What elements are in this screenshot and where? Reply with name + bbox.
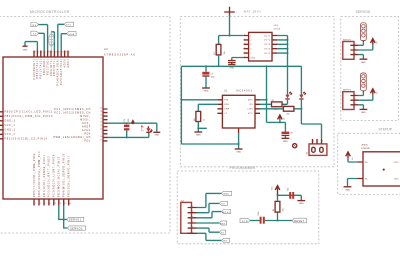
svg-text:23: 23 xyxy=(100,107,102,109)
U2 right pins xyxy=(103,109,108,141)
wire C10 to RESET xyxy=(265,220,292,222)
svg-text:100n: 100n xyxy=(128,118,130,122)
X1 slots xyxy=(312,147,323,152)
X3 inner ticks xyxy=(350,45,354,54)
svg-text:C16: C16 xyxy=(124,119,126,122)
U2 bottom pin numbers xyxy=(35,203,72,205)
svg-text:24: 24 xyxy=(100,111,102,113)
svg-text:SERV2: SERV2 xyxy=(343,90,352,92)
svg-text:2: 2 xyxy=(355,99,356,101)
svg-text:PC3(ADC3)_LIGHT_PIN26: PC3(ADC3)_LIGHT_PIN26 xyxy=(53,154,56,197)
svg-text:1: 1 xyxy=(355,94,356,96)
net label RX xyxy=(31,23,48,51)
net label RESET xyxy=(292,218,307,223)
wire to SERVO2 xyxy=(64,206,68,229)
svg-text:PC6(RESET): PC6(RESET) xyxy=(34,59,36,80)
svg-text:R9: R9 xyxy=(273,209,275,211)
svg-text:VCC: VCC xyxy=(248,113,253,115)
junctions on riser xyxy=(287,39,289,41)
svg-text:1: 1 xyxy=(313,141,314,143)
resistor R5 xyxy=(272,102,283,107)
svg-text:RESET: RESET xyxy=(294,221,304,223)
regulator U1 body xyxy=(222,95,255,128)
svg-text:GND: GND xyxy=(154,135,159,137)
svg-text:ATMEGA328P-AU: ATMEGA328P-AU xyxy=(104,53,136,56)
svg-text:3: 3 xyxy=(355,103,356,105)
svg-text:2: 2 xyxy=(192,211,193,213)
svg-text:SDA: SDA xyxy=(68,33,74,36)
svg-text:3: 3 xyxy=(35,203,36,205)
ground GND (C9) xyxy=(282,138,290,143)
net label RST xyxy=(219,221,226,225)
net label 5V xyxy=(219,201,227,205)
section frame PROGRAMMER xyxy=(177,171,319,244)
U1 right pins xyxy=(255,100,260,114)
svg-text:GND: GND xyxy=(361,112,366,114)
wire X5 pin3 to GND xyxy=(358,105,363,109)
svg-text:R4: R4 xyxy=(194,119,196,121)
U1 bottom pin xyxy=(238,128,240,133)
ground GND (C7) xyxy=(202,88,210,93)
connector X3 body xyxy=(343,42,354,60)
svg-text:2: 2 xyxy=(355,49,356,51)
svg-text:GND: GND xyxy=(299,203,304,205)
svg-text:STEPUP: STEPUP xyxy=(379,127,393,131)
svg-text:2: 2 xyxy=(250,40,251,42)
section frame MICROCONTROLLER xyxy=(0,17,170,234)
svg-text:21: 21 xyxy=(100,129,102,131)
svg-text:PD2(INT0): PD2(INT0) xyxy=(51,59,53,76)
supply arrow VCC xyxy=(271,186,280,197)
svg-text:DRC: DRC xyxy=(248,100,254,102)
svg-text:1: 1 xyxy=(69,52,70,54)
svg-text:10k: 10k xyxy=(224,51,226,54)
svg-text:OUT3: OUT3 xyxy=(264,44,270,46)
net label SDA xyxy=(61,32,76,51)
module origin cross xyxy=(383,169,385,171)
JP1 right pins xyxy=(272,36,277,54)
svg-text:5: 5 xyxy=(45,203,46,205)
U2 right pin numbers xyxy=(100,107,102,141)
svg-text:U2: U2 xyxy=(104,48,108,51)
svg-text:DTR: DTR xyxy=(242,221,248,223)
wire S2 to X5 pin1 xyxy=(358,92,363,95)
svg-text:PC2_(ADC2)SMES_CH: PC2_(ADC2)SMES_CH xyxy=(54,111,91,114)
svg-text:GND: GND xyxy=(196,135,201,137)
svg-text:2: 2 xyxy=(318,141,319,143)
U2 right pin labels xyxy=(53,108,91,143)
X4 pin numbers xyxy=(192,206,193,234)
svg-text:4: 4 xyxy=(192,222,193,224)
svg-text:TX: TX xyxy=(33,34,37,36)
svg-text:1: 1 xyxy=(355,44,356,46)
svg-text:9: 9 xyxy=(52,52,53,54)
svg-text:15: 15 xyxy=(70,203,72,205)
svg-text:100n: 100n xyxy=(287,187,289,191)
wire R1 to bus xyxy=(218,55,220,66)
connector X5 body xyxy=(343,92,354,110)
svg-text:PD1(TXD): PD1(TXD) xyxy=(47,59,49,75)
svg-text:GND: GND xyxy=(223,194,230,196)
section frame SERVO xyxy=(341,17,399,121)
U2 top pin labels (vertical) xyxy=(34,58,70,85)
VCC riser xyxy=(260,66,267,122)
JP1 right pin wires to bus xyxy=(277,36,288,67)
svg-text:GND: GND xyxy=(236,152,241,154)
net label SERVO1 xyxy=(67,217,84,221)
capacitor C16 (filled, shunt) xyxy=(124,118,130,138)
svg-text:VIN: VIN xyxy=(224,100,229,102)
svg-text:SWE: SWE xyxy=(224,109,230,111)
svg-text:GND: GND xyxy=(250,57,255,59)
wire module IN- to GND xyxy=(348,179,358,187)
JP1 left pins xyxy=(244,36,249,58)
svg-text:OUT4: OUT4 xyxy=(264,49,270,51)
pinhead S2 xyxy=(361,73,367,92)
junction xyxy=(229,35,231,37)
svg-text:5: 5 xyxy=(250,53,251,55)
svg-text:1: 1 xyxy=(192,206,193,208)
svg-text:PB7(XTAL2): PB7(XTAL2) xyxy=(40,59,43,79)
transistor hint Q xyxy=(141,125,144,131)
wire PWR LED row xyxy=(108,132,149,137)
X5 pins xyxy=(354,96,358,105)
led D2 xyxy=(146,126,152,132)
net label TX xyxy=(219,230,225,234)
svg-text:20: 20 xyxy=(100,125,102,127)
svg-text:STEPUP: STEPUP xyxy=(361,148,370,150)
svg-text:3: 3 xyxy=(192,216,193,218)
svg-text:IPK: IPK xyxy=(249,104,254,106)
U2 bottom pins xyxy=(34,199,69,206)
svg-text:ADC6: ADC6 xyxy=(63,59,66,68)
wire pin3 to MOSI label xyxy=(197,212,222,218)
svg-text:OUT5: OUT5 xyxy=(264,53,270,55)
resistor R4 xyxy=(196,111,201,121)
U1 left pins xyxy=(217,100,222,114)
svg-text:2: 2 xyxy=(45,52,46,54)
svg-text:4X05: 4X05 xyxy=(274,29,281,31)
X4 pins xyxy=(192,208,197,234)
supply arrow B+ xyxy=(346,152,358,162)
wire BAT to JP1 xyxy=(219,15,244,44)
svg-text:PB5(SCK)_SERVO_PIN17: PB5(SCK)_SERVO_PIN17 xyxy=(69,155,71,197)
capacitor C3 at JP1 pin6 xyxy=(228,58,244,70)
JP1 left pin numbers xyxy=(244,34,245,58)
svg-text:3: 3 xyxy=(355,53,356,55)
svg-text:VCC_2: VCC_2 xyxy=(5,134,16,136)
svg-text:GND: GND xyxy=(345,189,350,191)
svg-text:R5: R5 xyxy=(272,100,274,102)
svg-text:SCL: SCL xyxy=(66,25,72,27)
X5 inner ticks xyxy=(350,96,354,105)
svg-text:SERV1: SERV1 xyxy=(343,40,352,42)
net label RX xyxy=(221,238,229,242)
left loop wire xyxy=(181,66,238,144)
svg-text:CINV: CINV xyxy=(247,109,253,111)
wire U1 to R5 xyxy=(260,100,288,104)
svg-text:PD2: PD2 xyxy=(84,141,91,143)
led LED1 xyxy=(285,66,292,99)
svg-text:JP300: JP300 xyxy=(361,144,368,146)
X5 pin numbers xyxy=(355,94,356,105)
ground GND (stepup) xyxy=(344,187,352,192)
svg-text:GND: GND xyxy=(283,141,288,143)
module pin labels xyxy=(365,162,369,181)
section frame STEPUP xyxy=(338,133,400,194)
wire R4 down xyxy=(198,122,207,132)
wire LED2 col to X1 xyxy=(301,109,321,139)
stepup module body xyxy=(363,152,400,186)
svg-text:SCK_: SCK_ xyxy=(82,123,91,125)
svg-text:AVCC: AVCC xyxy=(82,129,91,132)
resonator Y1 xyxy=(49,31,55,51)
led LED2 xyxy=(299,66,306,99)
svg-text:10k: 10k xyxy=(283,208,285,211)
wire S1 to X3 pin1 xyxy=(358,42,363,45)
net label GND xyxy=(221,191,231,195)
connector X1 body xyxy=(309,144,327,156)
pinhead S1 xyxy=(361,23,367,42)
svg-text:MOSI: MOSI xyxy=(222,212,230,214)
module left pins xyxy=(358,162,364,179)
svg-text:28: 28 xyxy=(65,52,67,54)
wire DTR to C10 xyxy=(250,220,260,222)
svg-text:IN-: IN- xyxy=(365,178,368,180)
svg-text:SERVO1: SERVO1 xyxy=(69,220,82,222)
JP1 inner pin labels xyxy=(250,35,255,59)
svg-text:4: 4 xyxy=(40,203,41,205)
svg-text:SWC: SWC xyxy=(224,104,230,106)
svg-text:PB4(MISO)_SERVO_PIN16: PB4(MISO)_SERVO_PIN16 xyxy=(64,153,66,197)
svg-text:RX: RX xyxy=(223,241,227,243)
capacitor C9 (polarized) xyxy=(282,132,293,138)
svg-text:C9: C9 xyxy=(290,133,292,135)
net label DTR xyxy=(240,218,250,222)
svg-text:AREF: AREF xyxy=(82,126,91,129)
svg-text:GND: GND xyxy=(23,50,28,52)
svg-text:B+: B+ xyxy=(352,157,354,159)
wire U1 to R6 xyxy=(260,100,301,109)
U2 bottom pin labels (vertical) xyxy=(34,151,71,197)
svg-text:29: 29 xyxy=(35,52,37,54)
svg-text:GND: GND xyxy=(229,68,234,70)
svg-text:SERVO2: SERVO2 xyxy=(70,228,83,230)
svg-text:PC4(ADC4/SDA): PC4(ADC4/SDA) xyxy=(57,59,60,86)
svg-text:PROGRAMMER: PROGRAMMER xyxy=(230,166,257,170)
wire X3 pin3 to GND xyxy=(358,55,363,59)
wire VCC row to C11 xyxy=(278,194,302,196)
ground GND (R4) xyxy=(194,132,202,137)
svg-text:R1: R1 xyxy=(214,52,216,54)
svg-text:100u: 100u xyxy=(211,77,215,79)
svg-text:CT: CT xyxy=(224,113,228,115)
svg-text:PB3(MOSI/OC2A)_PIN15: PB3(MOSI/OC2A)_PIN15 xyxy=(58,156,61,197)
svg-text:R6: R6 xyxy=(284,104,286,106)
svg-text:MOSI_: MOSI_ xyxy=(80,119,91,121)
svg-text:PD0(RXD): PD0(RXD) xyxy=(44,59,46,76)
vcc arrow small xyxy=(132,121,135,125)
supply arrow 5V xyxy=(278,115,286,122)
svg-text:13: 13 xyxy=(65,203,67,205)
connector JP1 body xyxy=(249,32,272,61)
wire VCC row xyxy=(267,122,286,131)
svg-text:10: 10 xyxy=(55,52,57,54)
supply arrow 5V (servo1) xyxy=(358,39,378,50)
ground GND (AREF) xyxy=(153,132,160,136)
svg-text:100n: 100n xyxy=(258,212,260,216)
U1 pin labels xyxy=(224,100,230,116)
svg-text:27: 27 xyxy=(58,52,60,54)
net label SCL xyxy=(58,22,74,50)
svg-text:PC0(ADC0)_BATT_PIN23: PC0(ADC0)_BATT_PIN23 xyxy=(48,156,51,197)
electrolytic capacitor C7 xyxy=(202,66,215,87)
svg-text:PD6(AIN0/OC0A)_PWM_P10: PD6(AIN0/OC0A)_PWM_P10 xyxy=(38,151,41,197)
junction dots on bus xyxy=(205,65,207,67)
svg-text:MISO_: MISO_ xyxy=(80,116,91,118)
X1 pin numbers xyxy=(313,141,323,143)
svg-text:17: 17 xyxy=(100,139,102,141)
svg-text:OUT+: OUT+ xyxy=(393,162,399,164)
svg-text:TX: TX xyxy=(221,233,225,235)
section frame POWER xyxy=(180,17,334,167)
horizontal power bus xyxy=(181,65,301,67)
svg-text:U1: U1 xyxy=(224,91,228,93)
pad P1 xyxy=(293,144,297,148)
svg-text:OUT1: OUT1 xyxy=(264,35,270,37)
svg-text:PB2(SS/OC1B)_CS_PIN14: PB2(SS/OC1B)_CS_PIN14 xyxy=(5,139,48,141)
svg-text:C7: C7 xyxy=(211,73,213,75)
net label MOSI xyxy=(221,210,230,214)
svg-text:PB6(XTAL1): PB6(XTAL1) xyxy=(36,59,39,79)
svg-text:SERVOS: SERVOS xyxy=(356,10,371,14)
net label TX xyxy=(31,31,44,50)
wire pin6 to RX label xyxy=(197,233,222,240)
svg-text:PC5(ADC5/SCL): PC5(ADC5/SCL) xyxy=(60,59,63,86)
svg-text:PD3(INT1): PD3(INT1) xyxy=(54,58,56,75)
svg-text:11: 11 xyxy=(55,203,57,205)
svg-text:PC1_(ADC1)SMES_CH: PC1_(ADC1)SMES_CH xyxy=(54,108,91,111)
svg-text:12: 12 xyxy=(60,203,62,205)
svg-text:25: 25 xyxy=(100,115,102,117)
svg-text:4: 4 xyxy=(250,49,251,51)
U2 left pins xyxy=(0,112,3,139)
wire pin1 to GND label xyxy=(197,193,222,207)
svg-text:GND_1: GND_1 xyxy=(5,130,16,132)
net label SERVO2 xyxy=(68,226,86,230)
connector X4 body xyxy=(181,202,192,233)
wire pin4 to RST label xyxy=(197,222,220,224)
U2 left pin labels xyxy=(5,112,54,141)
svg-text:3: 3 xyxy=(322,141,323,143)
wire to SERVO1 xyxy=(59,206,67,220)
ground GND (U1) xyxy=(235,133,243,154)
svg-text:GND: GND xyxy=(361,62,366,64)
X3 pin numbers xyxy=(355,44,356,55)
svg-text:5: 5 xyxy=(192,227,193,229)
svg-text:19: 19 xyxy=(100,118,102,120)
wire pin5 to TX label xyxy=(197,228,220,232)
wire U1 VIN xyxy=(181,99,217,101)
svg-text:30: 30 xyxy=(48,52,50,54)
svg-text:PB1(OC1A)_PWM_SIG_PIN13: PB1(OC1A)_PWM_SIG_PIN13 xyxy=(5,115,53,118)
wire AREF row xyxy=(108,123,157,132)
svg-text:6: 6 xyxy=(192,232,193,234)
X4 inner ticks xyxy=(188,208,191,234)
svg-text:PD7(AIN1)_SENSE_PIN11: PD7(AIN1)_SENSE_PIN11 xyxy=(43,154,46,197)
svg-text:PB0(ICP1/CLKO)_LED_PIN12: PB0(ICP1/CLKO)_LED_PIN12 xyxy=(5,112,54,114)
ground GND (C11) xyxy=(297,195,305,205)
X1 top pins xyxy=(313,139,322,144)
capacitor C10 (filled) xyxy=(258,212,265,224)
svg-text:5V: 5V xyxy=(222,204,226,206)
svg-text:1: 1 xyxy=(250,35,251,37)
microcontroller U2 body xyxy=(3,57,103,199)
capacitor C11 (filled) xyxy=(287,187,294,199)
svg-text:16: 16 xyxy=(100,136,102,138)
supply flag BAT xyxy=(224,7,235,16)
svg-text:RST: RST xyxy=(220,223,226,225)
svg-text:1k: 1k xyxy=(204,119,206,121)
svg-text:MC34063: MC34063 xyxy=(237,91,253,93)
X3 pins xyxy=(354,45,358,54)
svg-text:PD5(T1/OC0B)_PWM_PIN9: PD5(T1/OC0B)_PWM_PIN9 xyxy=(34,153,36,197)
supply arrow 5V (servo2) xyxy=(358,89,378,100)
svg-text:GND: GND xyxy=(204,91,209,93)
gnd symbol (top left of U2) xyxy=(23,42,38,52)
svg-text:ADC7: ADC7 xyxy=(67,59,70,68)
svg-text:31: 31 xyxy=(62,52,64,54)
svg-text:PWR_LED(ANODE)_CH: PWR_LED(ANODE)_CH xyxy=(53,136,91,139)
resistor R9 xyxy=(273,195,285,220)
resistor R1 xyxy=(216,44,221,55)
svg-text:BAT 18V+: BAT 18V+ xyxy=(244,9,262,13)
ground GND (servo2) xyxy=(360,109,368,114)
svg-text:GND_3: GND_3 xyxy=(5,121,16,123)
svg-text:OUT-: OUT- xyxy=(394,178,399,180)
svg-text:220: 220 xyxy=(286,114,289,116)
wire pin2 to 5V label xyxy=(197,203,220,212)
svg-text:JP1: JP1 xyxy=(274,25,280,27)
U2 top pin numbers xyxy=(35,52,70,54)
svg-text:RX: RX xyxy=(33,25,37,27)
svg-text:MICROCONTROLLER: MICROCONTROLLER xyxy=(30,10,70,14)
svg-text:18: 18 xyxy=(100,122,102,124)
svg-text:PD4: PD4 xyxy=(84,134,91,136)
svg-text:3: 3 xyxy=(250,44,251,46)
wire U1 pin2 to R4 xyxy=(198,104,217,111)
ground GND (servo1) xyxy=(360,59,368,64)
U2 top pins xyxy=(34,51,68,58)
resistor R6 xyxy=(283,106,294,111)
svg-text:VCC_1: VCC_1 xyxy=(5,125,16,127)
svg-text:OUT2: OUT2 xyxy=(264,40,270,42)
